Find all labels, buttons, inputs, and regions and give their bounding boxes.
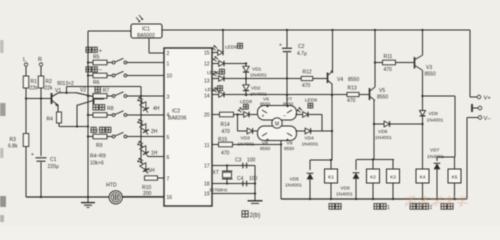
svg-text:M: M [275,122,279,128]
svg-text:1N4001: 1N4001 [250,73,267,79]
svg-text:1N4001: 1N4001 [285,183,302,189]
svg-text:BA8206: BA8206 [168,116,187,122]
svg-text:8550: 8550 [348,77,359,83]
svg-text:2: 2 [167,51,170,57]
svg-text:470: 470 [302,83,311,89]
svg-text:VD3: VD3 [241,136,251,142]
svg-text:V+: V+ [484,96,492,102]
svg-text:–: – [283,113,286,119]
svg-text:10: 10 [167,74,173,80]
svg-text:VD1: VD1 [252,67,262,73]
svg-text:6.8k: 6.8k [8,144,18,150]
svg-text:+: + [262,114,265,120]
svg-text:XT: XT [213,170,219,176]
svg-text:8550: 8550 [283,102,294,107]
svg-text:1N4001: 1N4001 [427,118,444,124]
svg-text:R5: R5 [93,55,100,61]
svg-text:R1: R1 [31,79,38,85]
svg-text:1N4001: 1N4001 [336,192,353,198]
svg-text:2H: 2H [151,129,158,135]
svg-text:15: 15 [204,51,210,57]
svg-text:2(b): 2(b) [250,213,261,219]
svg-text:LED9: LED9 [305,98,317,104]
svg-text:R14: R14 [221,122,230,128]
svg-text:1: 1 [387,205,390,211]
svg-text:R3: R3 [10,137,17,143]
svg-text:K5: K5 [452,175,458,181]
svg-text:R6: R6 [93,80,100,86]
svg-text:8550: 8550 [260,146,271,151]
svg-text:1N4001: 1N4001 [302,142,319,148]
svg-text:VD6: VD6 [341,186,351,192]
svg-text:VD9: VD9 [429,111,439,117]
svg-text:22k: 22k [30,86,39,92]
svg-text:1N4001: 1N4001 [427,154,444,160]
svg-text:V5: V5 [379,88,385,94]
svg-text:470: 470 [347,98,356,104]
svg-text:BA5002: BA5002 [137,33,155,39]
svg-text:V3: V3 [426,65,432,71]
svg-text:220μ: 220μ [48,164,59,170]
svg-text:470: 470 [222,129,231,135]
svg-text:C3: C3 [235,158,242,164]
svg-text:+: + [31,152,34,158]
svg-text:V4: V4 [337,77,343,83]
svg-text:8550: 8550 [425,72,436,78]
svg-text:R4~R9: R4~R9 [90,154,106,160]
svg-text:R9: R9 [96,143,103,149]
svg-text:4H: 4H [153,106,160,112]
svg-text:IC1: IC1 [142,27,150,33]
svg-text:22k: 22k [45,86,54,92]
svg-text:V–: V– [484,116,492,122]
svg-text:32768Hz: 32768Hz [209,188,228,193]
svg-text:K4: K4 [420,175,426,181]
svg-text:R8: R8 [107,106,114,112]
svg-text:V1: V1 [55,88,61,94]
svg-text:100: 100 [247,158,256,164]
svg-text:VD7: VD7 [430,148,440,154]
svg-text:5: 5 [167,135,170,141]
svg-text:R7: R7 [103,88,110,94]
svg-text:L: L [23,57,26,63]
svg-text:4: 4 [167,113,170,119]
svg-text:470: 470 [384,67,393,73]
svg-text:+: + [279,43,282,49]
svg-text:R15: R15 [218,137,227,143]
svg-text:K1: K1 [328,175,334,181]
svg-text:14: 14 [204,94,210,100]
svg-text:0.5H: 0.5H [144,168,155,174]
svg-text:K2: K2 [370,175,376,181]
svg-text:12: 12 [204,62,210,68]
svg-text:13: 13 [204,79,210,85]
svg-text:C2: C2 [298,44,305,50]
svg-text:3: 3 [167,95,170,101]
svg-text:VD8: VD8 [378,129,388,135]
svg-text:1H: 1H [151,151,158,157]
svg-text:16: 16 [167,195,173,201]
svg-text:R4: R4 [47,117,54,123]
svg-text:4.7μ: 4.7μ [297,51,307,57]
svg-text:IC2: IC2 [172,109,180,115]
svg-text:R13: R13 [348,86,357,92]
svg-text:VD2: VD2 [251,86,261,92]
svg-text:HTD: HTD [106,183,117,189]
svg-text:20: 20 [204,113,210,119]
svg-text:LED6: LED6 [207,70,219,76]
svg-text:C4: C4 [237,176,244,182]
svg-text:1: 1 [167,62,170,68]
svg-text:VD4: VD4 [305,136,315,142]
svg-text:100: 100 [249,176,258,182]
svg-text:8550: 8550 [260,102,271,107]
svg-text:R11: R11 [384,54,393,60]
svg-text:1N4001: 1N4001 [375,135,392,141]
svg-text:C1: C1 [50,157,57,163]
svg-text:470: 470 [221,151,230,157]
svg-text:8550: 8550 [284,146,295,151]
svg-text:VD5: VD5 [290,177,300,183]
svg-text:K3: K3 [390,175,396,181]
svg-text:10k×6: 10k×6 [90,161,104,167]
svg-text:V2: V2 [80,88,86,94]
svg-text:R2: R2 [46,79,53,85]
svg-text:17: 17 [204,164,210,170]
svg-text:8550: 8550 [377,95,388,101]
svg-text:6: 6 [167,155,170,161]
svg-text:R: R [38,57,42,63]
svg-text:11: 11 [204,143,209,149]
svg-text:7: 7 [167,177,170,183]
svg-text:R12: R12 [303,70,312,76]
svg-text:LED6: LED6 [225,45,237,51]
